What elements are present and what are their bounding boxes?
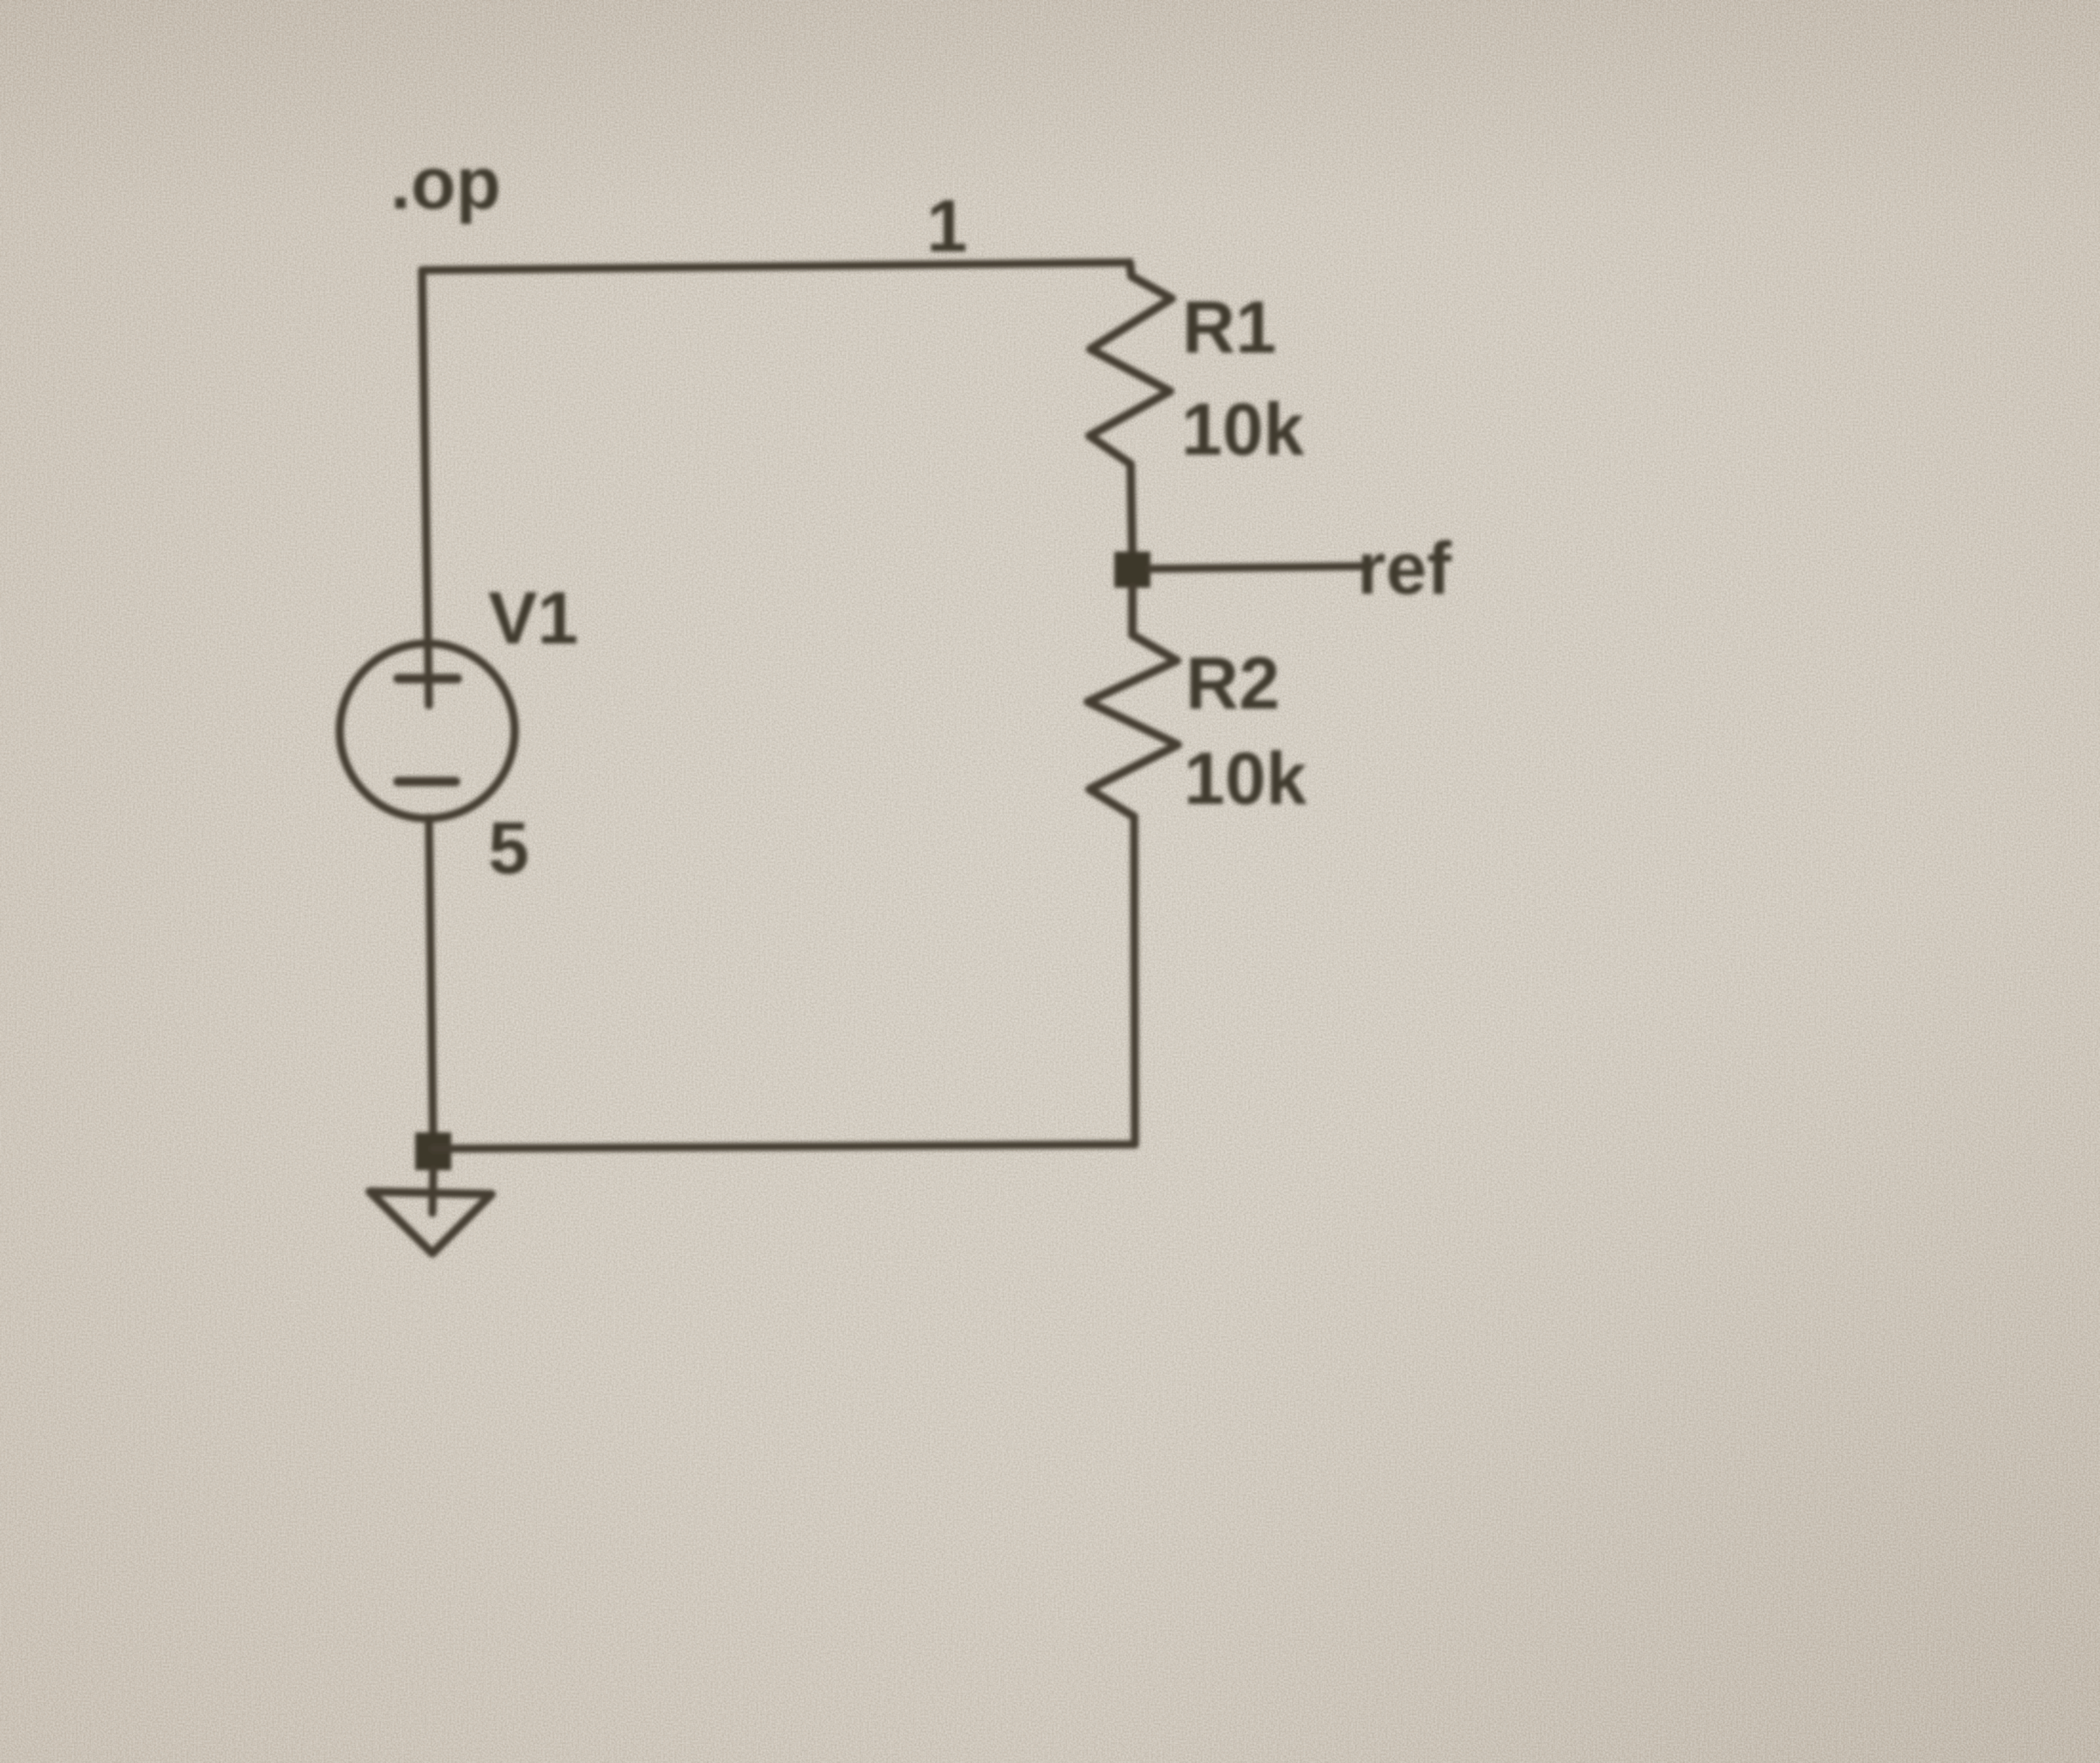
wire V1 to ground node xyxy=(429,818,433,1149)
wire to ref xyxy=(1150,566,1363,569)
wire ground stub xyxy=(432,1170,433,1213)
svg-text:ref: ref xyxy=(1357,528,1451,610)
svg-text:V1: V1 xyxy=(488,577,578,660)
wire bottom xyxy=(433,1144,1135,1149)
svg-text:1: 1 xyxy=(926,185,968,268)
node ref junction xyxy=(1114,552,1150,588)
V1 plus sign xyxy=(398,674,457,684)
svg-text:5: 5 xyxy=(488,807,529,890)
voltage source V1 xyxy=(340,643,515,818)
svg-text:10k: 10k xyxy=(1184,738,1307,820)
svg-text:10k: 10k xyxy=(1181,389,1305,471)
wire right rail xyxy=(1134,817,1135,1144)
wire left rail xyxy=(422,270,429,705)
ground junction xyxy=(415,1132,451,1170)
resistor R2 xyxy=(1088,588,1178,817)
svg-text:R1: R1 xyxy=(1182,287,1276,369)
V1 minus sign xyxy=(398,777,456,787)
svg-text:.op: .op xyxy=(390,142,501,225)
svg-text:R2: R2 xyxy=(1186,643,1280,725)
ground xyxy=(370,1192,492,1253)
resistor R1 xyxy=(1089,263,1172,556)
wire node1 top xyxy=(422,263,1130,270)
